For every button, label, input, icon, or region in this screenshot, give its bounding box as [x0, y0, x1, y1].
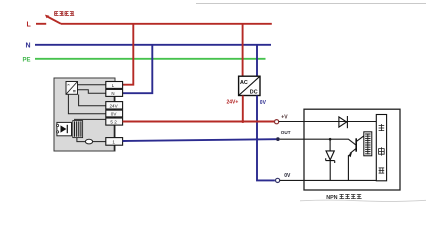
terminal rail line: [113, 82, 115, 151]
scan artifact top line: [196, 3, 426, 5]
svg-text:+V: +V: [281, 115, 288, 121]
svg-text:24V: 24V: [110, 103, 119, 108]
zener diode Z1: [326, 139, 335, 180]
svg-text:24V+: 24V+: [227, 99, 239, 105]
main circuit block 主电路: [376, 115, 386, 181]
terminal 0V of module: [106, 110, 123, 117]
wire power box to L terminal: [78, 84, 106, 86]
terminal 24V of module: [106, 102, 123, 109]
svg-text:1: 1: [112, 139, 115, 144]
relay contact stack: [73, 121, 83, 138]
svg-text:0V: 0V: [260, 100, 267, 106]
svg-text:N: N: [26, 43, 31, 50]
wire internal to output terminal 5-2: [74, 118, 106, 120]
module enclosure (gray box): [54, 78, 115, 151]
transistor Q1: [348, 136, 364, 181]
wire L drop to module terminal: [123, 24, 134, 85]
wire power box to 0V terminal: [68, 94, 105, 113]
svg-text:DC: DC: [250, 90, 258, 96]
wire L drop to AC/DC converter: [242, 24, 244, 76]
breaker blade tip: [45, 15, 49, 19]
terminal N of module: [106, 89, 123, 96]
terminal OUT dot: [276, 137, 280, 141]
fuse F1: [77, 138, 106, 144]
svg-text:L: L: [27, 21, 32, 28]
indicator label box: [364, 132, 372, 156]
wire 24V+ from converter: [242, 96, 244, 122]
terminal 1 of module: [106, 138, 123, 146]
caption NPN型传感器: [326, 194, 361, 201]
wire power box to N terminal: [78, 90, 106, 93]
wire power box to 24V terminal: [79, 95, 106, 106]
svg-text:AC: AC: [240, 80, 248, 86]
svg-text:5 2: 5 2: [110, 120, 117, 125]
scan artifact bottom line: [300, 200, 426, 201]
wire PE line: [35, 58, 266, 60]
terminal L of module: [106, 82, 123, 89]
optocoupler U2: [57, 122, 72, 135]
AC/DC converter U3: [239, 76, 260, 95]
wire L line: [61, 23, 272, 25]
wire N line: [35, 44, 271, 46]
wire +V inside sensor: [279, 121, 377, 123]
sensor enclosure box: [304, 109, 400, 190]
wire OUT from module terminal to sensor: [123, 139, 276, 141]
wire +V from module terminal to sensor: [123, 121, 275, 123]
terminal 5-2 of module: [106, 118, 123, 125]
wire N drop to module terminal: [123, 45, 153, 93]
wire 0V from converter to sensor 0V: [257, 96, 275, 181]
wire OUT inside sensor: [280, 139, 356, 145]
svg-text:N: N: [111, 91, 114, 96]
wire 0V inside sensor: [280, 179, 377, 181]
junction 24V+ node: [241, 120, 244, 123]
junction zener node: [329, 138, 332, 141]
diode D1: [339, 116, 348, 128]
power supply symbol box: [66, 82, 78, 95]
svg-text:PE: PE: [23, 57, 31, 63]
terminal 0V circle: [276, 178, 280, 182]
svg-text:0V: 0V: [284, 173, 291, 179]
overcurrent protection label 过流保护: [54, 11, 74, 16]
breaker switch on L line: [36, 16, 61, 23]
wire N drop to AC/DC converter: [256, 45, 258, 76]
svg-text:OUT: OUT: [281, 130, 291, 135]
terminal +V circle: [275, 120, 279, 124]
svg-text:0V: 0V: [111, 112, 118, 117]
